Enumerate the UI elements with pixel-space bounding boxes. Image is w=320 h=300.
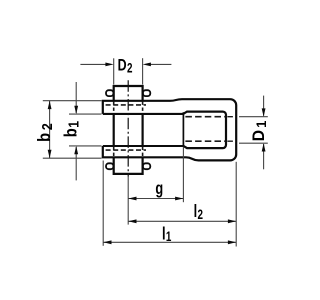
hidden groove line in bottom bar	[106, 149, 146, 151]
D2 leader right	[150, 63, 171, 65]
pin bottom head	[114, 158, 143, 174]
b2 dimension line	[49, 101, 51, 158]
g extension line right	[182, 147, 184, 202]
clip ring top-left	[106, 90, 113, 96]
b1 extension line bottom	[69, 145, 102, 147]
clip ring top-right	[143, 90, 150, 96]
D1 arrow top	[262, 108, 266, 116]
l2 dimension line	[128, 220, 236, 222]
thread hidden line bottom right stub	[227, 140, 236, 142]
D1 extension line bottom	[239, 142, 268, 144]
svg-text:D2: D2	[118, 57, 133, 76]
fork slot bottom edge	[103, 145, 184, 147]
pin hidden edge top-right	[142, 102, 144, 114]
svg-text:l1: l1	[162, 224, 172, 244]
D1 arrow bottom	[262, 143, 266, 151]
l1 arrow right	[228, 240, 236, 244]
pin hidden edge bottom-left	[113, 147, 115, 157]
svg-text:b1: b1	[61, 121, 82, 138]
clip ring bottom-left	[106, 163, 113, 169]
pin centerline extension	[127, 177, 129, 225]
pin right side in slot	[142, 114, 144, 146]
thread hidden line top	[185, 116, 225, 118]
pin hidden edge bottom-right	[142, 147, 144, 157]
l1 arrow left	[103, 240, 111, 244]
l1 left extension line	[102, 161, 104, 246]
l2 arrow left	[128, 219, 136, 223]
svg-text:D1: D1	[249, 120, 269, 141]
g dimension line	[128, 198, 183, 200]
g arrow right	[175, 197, 183, 201]
b1 arrow top	[74, 106, 78, 114]
l2 arrow right	[228, 219, 236, 223]
D1 dimension line lower	[263, 144, 265, 169]
l1 dimension line	[103, 241, 236, 243]
D2 extension line left	[113, 58, 115, 84]
D2 leader left	[80, 63, 106, 65]
b2 extension line bottom	[43, 157, 102, 159]
fork slot top edge	[103, 113, 184, 115]
D2 arrow left	[105, 63, 113, 67]
thread hidden line bottom	[185, 140, 225, 142]
b1 extension line top	[69, 113, 102, 115]
D2 arrow right	[143, 63, 151, 67]
D1 dimension line upper	[263, 96, 265, 116]
b1 dimension line upper	[75, 82, 77, 113]
svg-text:l2: l2	[194, 202, 204, 222]
l1 l2 right extension line	[235, 162, 237, 247]
pin top head	[114, 86, 143, 101]
svg-text:g: g	[155, 179, 163, 198]
b1 dimension line lower	[75, 147, 77, 180]
D2 extension line right	[142, 58, 144, 84]
thread hidden line top right stub	[227, 116, 236, 118]
slot end vertical	[182, 112, 184, 147]
hidden groove line in top bar	[106, 104, 146, 106]
b2 extension line top	[43, 100, 102, 102]
threaded socket outline	[183, 112, 226, 149]
b2 arrow bottom	[48, 150, 52, 158]
D1 extension line top	[239, 116, 268, 118]
b1 arrow bottom	[74, 146, 78, 154]
svg-text:b2: b2	[35, 123, 56, 142]
b2 arrow top	[48, 101, 52, 109]
pin centerline	[127, 80, 129, 176]
pin left side in slot	[113, 114, 115, 146]
fork outer contour	[103, 99, 236, 160]
g arrow left	[128, 197, 136, 201]
clip ring bottom-right	[143, 163, 150, 169]
pin hidden edge top-left	[113, 102, 115, 114]
